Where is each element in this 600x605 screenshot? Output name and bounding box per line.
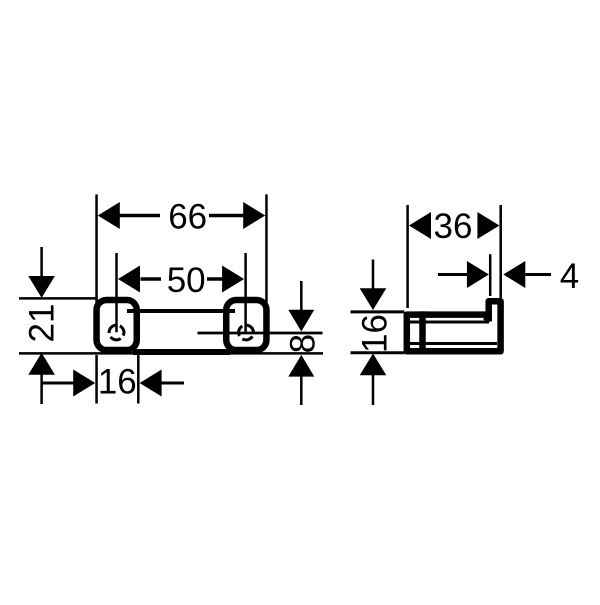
dim 66 line right segment bbox=[209, 214, 244, 218]
dim 16 label (side view, rotated) bbox=[356, 314, 395, 353]
dim 21 upper arrow line bbox=[40, 247, 43, 280]
side bottom edge extension line bbox=[351, 351, 405, 354]
dim 16 extension line right bbox=[137, 355, 140, 404]
dim 36 extension line left bbox=[406, 205, 409, 308]
right mount square bbox=[226, 300, 266, 350]
svg-text:8: 8 bbox=[284, 334, 323, 353]
dim 16 line right segment bbox=[160, 382, 184, 385]
dim 36 arrow right bbox=[477, 212, 499, 239]
dim 16 lower arrow line (side view) bbox=[372, 373, 375, 405]
dim 16 upper arrow (side view) bbox=[360, 288, 387, 310]
dim 50 arrow left bbox=[118, 266, 140, 293]
hook lip inner edge stub bbox=[485, 313, 492, 322]
chamfer diagonal bbox=[484, 318, 489, 322]
dim 66 line left segment bbox=[120, 214, 161, 218]
dim 21 upper arrow bbox=[28, 276, 55, 298]
left screw hole dashed circle bbox=[106, 322, 127, 343]
dim 4 arrow right bbox=[503, 261, 525, 288]
dim 21 lower arrow line bbox=[40, 372, 43, 404]
dim 16 lower arrow (side view) bbox=[360, 354, 387, 376]
dim 16 extension line left bbox=[95, 355, 98, 404]
dim 21 lower arrow bbox=[28, 353, 55, 375]
top object edge extension line bbox=[19, 297, 96, 300]
dim 16 arrow left bbox=[73, 370, 95, 397]
svg-text:4: 4 bbox=[560, 257, 579, 296]
dim 8 lower arrow bbox=[288, 355, 314, 377]
dim 4 extension line left bbox=[489, 254, 492, 296]
right screw centerline bbox=[244, 253, 247, 332]
dim 66 arrow left bbox=[98, 202, 120, 229]
mid edge line (8 dim upper reference) bbox=[198, 332, 323, 335]
right screw hole dashed circle bbox=[236, 322, 256, 342]
svg-text:16: 16 bbox=[98, 363, 137, 402]
svg-text:36: 36 bbox=[434, 207, 473, 246]
dim 21 label (rotated) bbox=[23, 304, 62, 343]
dim 8 upper arrow line bbox=[300, 281, 303, 312]
dim 8 lower arrow line bbox=[300, 375, 303, 405]
bottom object edge extension line bbox=[19, 352, 323, 355]
wall plate divider line bbox=[419, 311, 426, 354]
inner top surface line bbox=[410, 321, 489, 324]
dim 8 label (rotated) bbox=[284, 334, 323, 353]
left screw centerline bbox=[115, 253, 118, 332]
dim 16 arrow right bbox=[140, 370, 162, 397]
bar bottom edge line bbox=[133, 349, 230, 355]
dim 66 extension line left bbox=[95, 194, 98, 303]
left mount square bbox=[97, 300, 137, 350]
dim 16 line left segment bbox=[42, 382, 74, 385]
dim 4 line left segment bbox=[438, 273, 467, 276]
bar top edge line bbox=[127, 309, 235, 313]
dim 8 upper arrow bbox=[288, 310, 314, 332]
dim 66 arrow right bbox=[243, 202, 265, 229]
dim 36 extension line right bbox=[499, 205, 502, 298]
side profile outline with hook lip bbox=[407, 301, 501, 351]
dim 16 upper arrow line (side view) bbox=[372, 260, 375, 293]
dim 4 line right segment bbox=[525, 273, 551, 276]
svg-text:21: 21 bbox=[23, 304, 62, 343]
svg-text:16: 16 bbox=[356, 314, 395, 353]
svg-text:66: 66 bbox=[168, 197, 207, 236]
dim 50 line right segment bbox=[207, 277, 223, 281]
dim 66 extension line right bbox=[265, 194, 268, 303]
svg-text:50: 50 bbox=[167, 261, 206, 300]
dim 50 line left segment bbox=[141, 277, 162, 281]
dim 4 arrow left bbox=[467, 261, 489, 288]
dim 50 arrow right bbox=[222, 266, 244, 293]
side top edge extension line bbox=[351, 310, 405, 313]
dim 36 arrow left bbox=[409, 212, 431, 239]
inner bottom surface line bbox=[410, 342, 497, 345]
